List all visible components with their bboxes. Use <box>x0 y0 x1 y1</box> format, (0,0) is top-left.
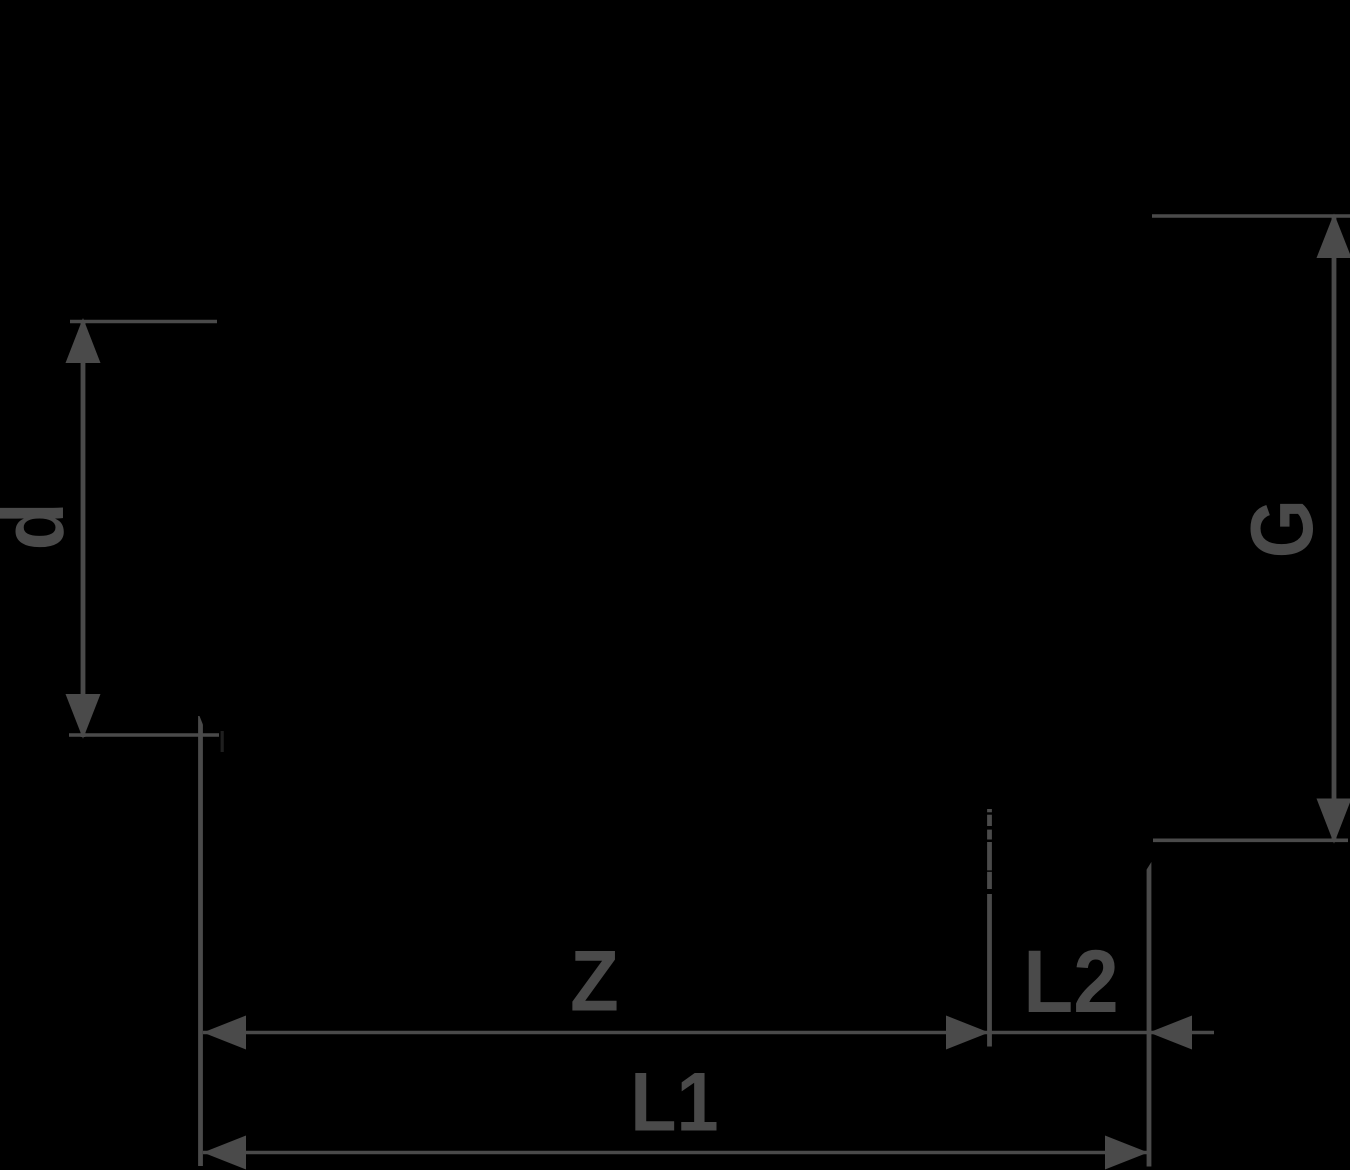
svg-text:L2: L2 <box>1023 932 1118 1032</box>
svg-text:Z: Z <box>570 933 619 1029</box>
svg-text:L1: L1 <box>630 1055 718 1148</box>
svg-text:d: d <box>0 502 82 550</box>
svg-text:G: G <box>1234 499 1331 558</box>
